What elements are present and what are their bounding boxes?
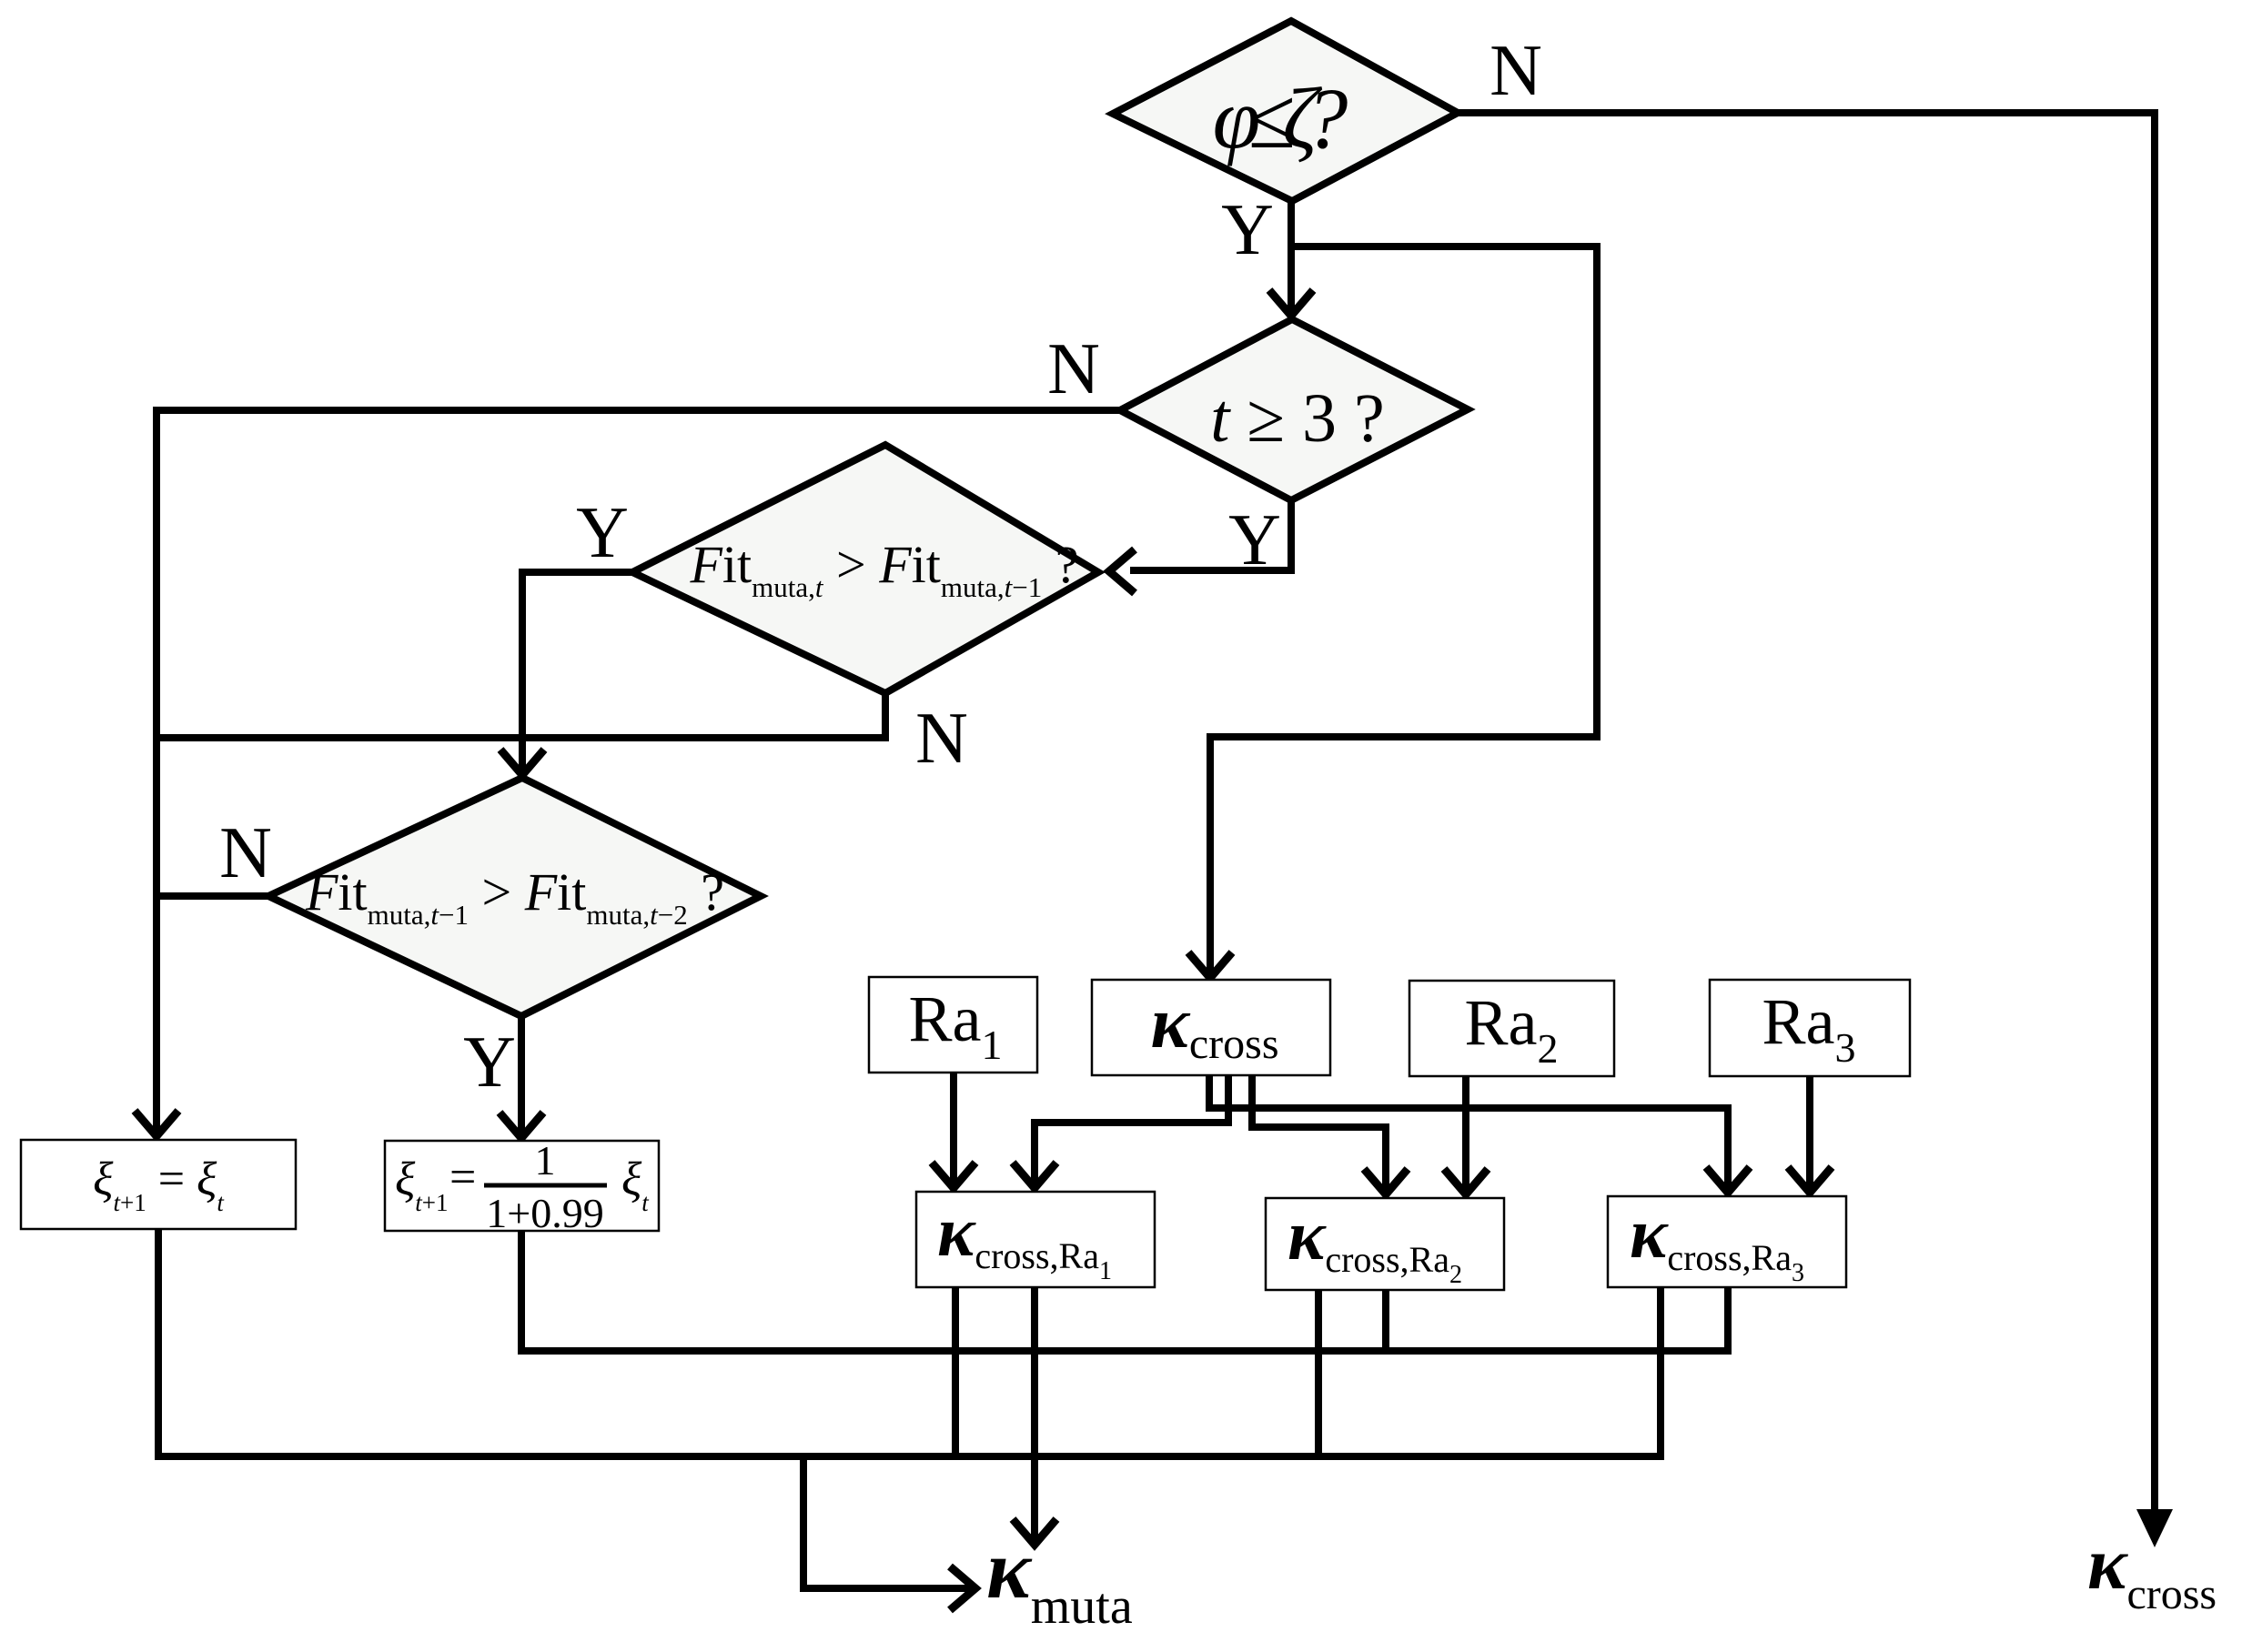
arrow: into kappa_muta from top	[1013, 1519, 1056, 1545]
arrow: into decision4 top	[500, 750, 544, 775]
box kappa_cross,Ra2	[1266, 1198, 1504, 1290]
arrow: into decision2 top	[1269, 290, 1313, 316]
arrow: into kcrossRa2 top left	[1364, 1169, 1408, 1194]
arrow: into kappa_muta from left	[950, 1566, 975, 1610]
wire: decision3 N branch down then left to rail	[157, 690, 885, 738]
arrow: into box1 top	[135, 1111, 178, 1136]
wire: box1 output down then right collector line to kcrossRa3 left output	[158, 1225, 1661, 1456]
wire: kcrossRa2 left output down to lower collector	[1315, 1290, 1322, 1456]
svg-text:κmuta: κmuta	[986, 1523, 1133, 1635]
svg-text:1+0.99: 1+0.99	[486, 1190, 603, 1236]
box B2: xi_t+1 = 1/(1+0.99) xi_t	[385, 1141, 659, 1231]
wire: Ra1 output down to kcrossRa1	[950, 1069, 957, 1183]
svg-text:t ≥ 3 ?: t ≥ 3 ?	[1210, 380, 1385, 457]
wire: Ra2 output down to kcrossRa2	[1462, 1073, 1469, 1189]
arrow: filled triangle into kappa_cross bottom right	[2136, 1509, 2173, 1547]
decision D4: Fit_muta,t-1 > Fit_muta,t-2 ?	[268, 778, 761, 1016]
wire: decision4 Y branch down to box2	[518, 1012, 525, 1133]
wire: kappa_cross output 3 right to kcrossRa2	[1252, 1072, 1386, 1189]
fraction bar	[484, 1184, 607, 1188]
wire: collector drop to kappa_muta arrow	[803, 1453, 970, 1588]
wire: kcrossRa1 right output down to kappa_muta	[1031, 1287, 1038, 1539]
box Ra2	[1409, 981, 1614, 1076]
wire: box2 output down then right collector line to kcrossRa3 right output	[521, 1227, 1728, 1351]
box kappa_cross	[1092, 980, 1330, 1075]
wire: Ra3 output down to kcrossRa3	[1806, 1073, 1813, 1187]
svg-text:1: 1	[535, 1137, 556, 1184]
wire: decision3 Y branch left and down to decision4	[522, 572, 636, 770]
wire: kcrossRa1 left output down to lower collector	[952, 1287, 959, 1460]
box B1: xi_t+1 = xi_t	[21, 1140, 296, 1229]
arrow: into kappa_cross box top	[1188, 952, 1232, 978]
arrow: into kcrossRa1 top right	[1013, 1163, 1056, 1188]
decision D3: Fit_muta,t > Fit_muta,t-1 ?	[632, 445, 1098, 693]
box Ra3	[1710, 980, 1910, 1076]
wire: kappa_cross output 1 right to kcrossRa3	[1209, 1072, 1728, 1187]
box Ra1	[869, 977, 1037, 1073]
svg-text:N: N	[1490, 31, 1542, 111]
box kappa_cross,Ra3	[1608, 1196, 1846, 1287]
svg-text:φ≤ζ?: φ≤ζ?	[1213, 70, 1348, 166]
wire: kappa_cross output 2 left to kcrossRa1	[1035, 1072, 1228, 1183]
wire: kcrossRa3 left output down to collector	[1657, 1287, 1664, 1460]
wire: decision2 Y branch down-left into decision3	[1130, 497, 1291, 570]
arrow: into kcrossRa3 top right	[1788, 1167, 1832, 1193]
decision D2: t >= 3 ?	[1120, 319, 1468, 500]
arrow: into decision3 right vertex	[1109, 549, 1135, 593]
wire: Y branch split going right and down to kappa_cross box	[1210, 247, 1597, 973]
svg-text:Y: Y	[463, 1022, 516, 1103]
decision D1: phi <= zeta ?	[1113, 21, 1458, 201]
wire: decision1 N branch to right rail	[1458, 113, 2155, 1510]
svg-text:N: N	[915, 699, 968, 779]
arrow: into box2 top	[500, 1113, 543, 1138]
box kappa_cross,Ra1	[916, 1192, 1155, 1287]
wire: kcrossRa2 right output down to upper collector	[1382, 1290, 1389, 1351]
svg-text:N: N	[1047, 329, 1100, 409]
svg-text:Y: Y	[1221, 190, 1274, 270]
wire: decision2 N branch left to left rail, rail down to box1	[157, 410, 1124, 1130]
wire: decision1 Y branch down to decision2	[1288, 197, 1295, 312]
wire: decision4 N branch left to rail	[157, 892, 272, 900]
svg-text:N: N	[219, 813, 272, 893]
arrow: into kcrossRa3 top left	[1706, 1167, 1750, 1193]
svg-text:Y: Y	[1228, 500, 1281, 580]
wire: kcrossRa3 right output down to collector	[1724, 1287, 1732, 1355]
svg-text:Y: Y	[576, 493, 629, 573]
svg-text:=: =	[449, 1152, 476, 1204]
arrow: into kcrossRa1 top left	[932, 1163, 975, 1188]
arrow: into kcrossRa2 top right	[1444, 1169, 1488, 1194]
